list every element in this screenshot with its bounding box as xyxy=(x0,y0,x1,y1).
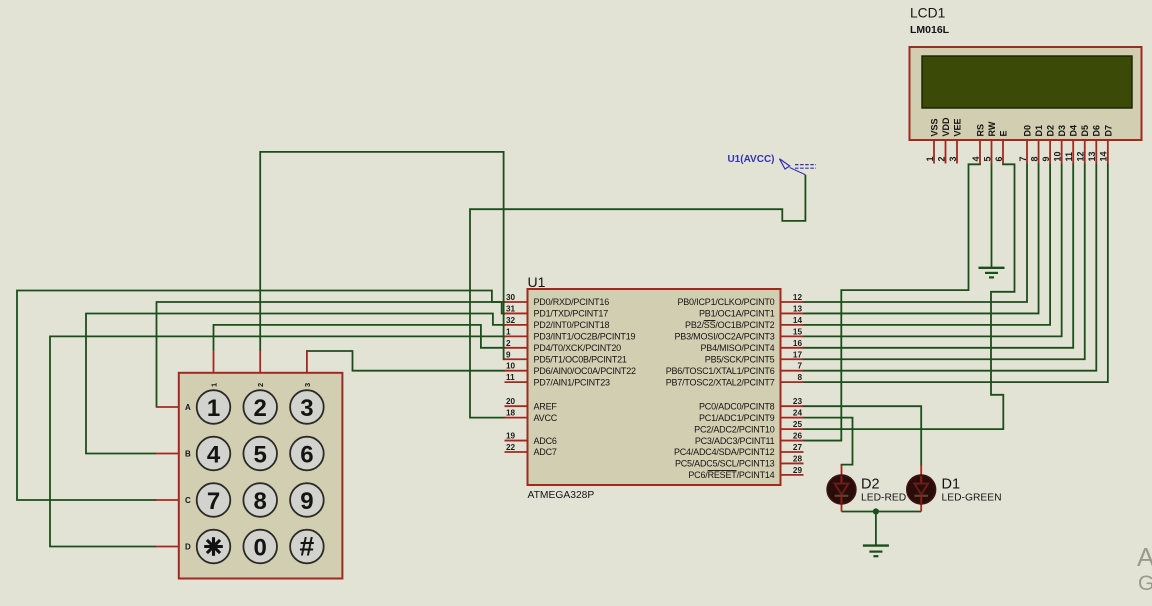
svg-text:ATMEGA328P: ATMEGA328P xyxy=(528,490,595,501)
svg-text:D5: D5 xyxy=(1080,125,1090,137)
svg-text:D4: D4 xyxy=(1069,125,1079,137)
svg-text:11: 11 xyxy=(506,373,515,382)
svg-text:D: D xyxy=(185,542,191,551)
svg-text:ADC7: ADC7 xyxy=(534,447,557,457)
svg-text:4: 4 xyxy=(207,441,221,468)
svg-text:VEE: VEE xyxy=(952,118,962,136)
U1 left pin stubs xyxy=(505,301,528,303)
svg-text:PB6/TOSC1/XTAL1/PCINT6: PB6/TOSC1/XTAL1/PCINT6 xyxy=(666,366,775,376)
svg-text:13: 13 xyxy=(793,304,803,313)
svg-text:1: 1 xyxy=(506,327,511,336)
svg-text:PD2/INT0/PCINT18: PD2/INT0/PCINT18 xyxy=(534,320,610,330)
wire LCD RW (pin 5) to ground xyxy=(991,164,993,268)
wire keypad row A to U1 pin 31 (PD1) xyxy=(157,302,506,407)
U1 right pin stubs xyxy=(781,301,804,303)
svg-text:PC2/ADC2/PCINT10: PC2/ADC2/PCINT10 xyxy=(694,424,775,434)
svg-text:11: 11 xyxy=(1064,152,1074,162)
svg-text:2: 2 xyxy=(936,156,946,161)
svg-text:15: 15 xyxy=(793,327,803,336)
svg-text:PB3/MOSI/OC2A/PCINT3: PB3/MOSI/OC2A/PCINT3 xyxy=(674,332,774,342)
ground symbol below LCD RW xyxy=(979,267,1005,269)
svg-text:PB2/SS/OC1B/PCINT2: PB2/SS/OC1B/PCINT2 xyxy=(685,320,775,330)
svg-text:5: 5 xyxy=(982,156,992,161)
svg-text:2: 2 xyxy=(256,383,265,387)
svg-text:9: 9 xyxy=(300,488,313,515)
svg-text:25: 25 xyxy=(793,420,803,429)
op-amp U1 ATMEGA328P body xyxy=(528,289,781,485)
LED D1 xyxy=(920,465,922,476)
keypad body xyxy=(179,373,343,579)
wire keypad col1 to U1 pin 2 (PD4) xyxy=(214,325,506,351)
svg-text:PC0/ADC0/PCINT8: PC0/ADC0/PCINT8 xyxy=(699,401,775,411)
svg-text:30: 30 xyxy=(506,293,516,302)
svg-text:7: 7 xyxy=(207,488,220,515)
svg-text:PD1/TXD/PCINT17: PD1/TXD/PCINT17 xyxy=(534,309,609,319)
svg-text:7: 7 xyxy=(1018,156,1028,161)
svg-text:LED-GREEN: LED-GREEN xyxy=(942,493,1002,504)
svg-text:AREF: AREF xyxy=(534,401,558,411)
svg-text:1: 1 xyxy=(207,395,220,422)
ground symbol below LEDs xyxy=(863,544,889,546)
LED D2 xyxy=(841,465,843,476)
svg-text:PB0/ICP1/CLKO/PCINT0: PB0/ICP1/CLKO/PCINT0 xyxy=(677,297,774,307)
svg-text:#: # xyxy=(300,531,315,561)
svg-text:10: 10 xyxy=(506,362,516,371)
svg-text:AVCC: AVCC xyxy=(534,413,558,423)
svg-text:PC3/ADC3/PCINT11: PC3/ADC3/PCINT11 xyxy=(695,436,775,446)
svg-text:18: 18 xyxy=(506,409,516,418)
svg-text:D6: D6 xyxy=(1092,125,1102,137)
keypad row pin stubs xyxy=(156,406,179,408)
svg-text:14: 14 xyxy=(793,316,803,325)
svg-text:D2: D2 xyxy=(1046,125,1056,137)
svg-text:PD0/RXD/PCINT16: PD0/RXD/PCINT16 xyxy=(534,297,610,307)
wire U1 pin 23 (PC0) to LED D1 anode xyxy=(803,406,922,466)
svg-text:PB4/MISO/PCINT4: PB4/MISO/PCINT4 xyxy=(700,343,774,353)
svg-text:RS: RS xyxy=(975,124,985,137)
svg-text:24: 24 xyxy=(793,409,803,418)
svg-text:U1: U1 xyxy=(528,274,546,290)
svg-text:VDD: VDD xyxy=(941,117,951,137)
svg-text:D1: D1 xyxy=(1034,125,1044,137)
svg-text:7: 7 xyxy=(797,362,802,371)
wire keypad col2 to U1 pin 9 (PD5) xyxy=(260,152,505,359)
svg-text:VSS: VSS xyxy=(929,118,939,136)
svg-text:G: G xyxy=(1138,572,1152,595)
svg-text:A: A xyxy=(1137,542,1152,572)
LCD1 pin stubs xyxy=(933,140,935,164)
keypad buttons xyxy=(197,390,231,424)
svg-text:LED-RED: LED-RED xyxy=(861,493,906,504)
svg-text:5: 5 xyxy=(254,441,267,468)
svg-text:PB5/SCK/PCINT5: PB5/SCK/PCINT5 xyxy=(705,354,775,364)
svg-text:12: 12 xyxy=(793,293,803,302)
svg-text:32: 32 xyxy=(506,316,516,325)
wire U1 pin 24 (PC1) to LED D2 anode xyxy=(803,418,853,466)
svg-text:D2: D2 xyxy=(861,477,880,493)
wire LCD E (pin 6) to U1 pin 25 (PC2) xyxy=(803,164,1015,430)
svg-text:2: 2 xyxy=(254,395,267,422)
svg-text:16: 16 xyxy=(793,339,803,348)
svg-text:D0: D0 xyxy=(1022,125,1032,137)
svg-text:9: 9 xyxy=(1041,156,1051,161)
svg-text:2: 2 xyxy=(506,339,511,348)
svg-text:PB7/TOSC2/XTAL2/PCINT7: PB7/TOSC2/XTAL2/PCINT7 xyxy=(666,377,775,387)
svg-text:PB1/OC1A/PCINT1: PB1/OC1A/PCINT1 xyxy=(699,309,775,319)
svg-text:1: 1 xyxy=(210,383,219,387)
svg-text:8: 8 xyxy=(1029,156,1039,161)
wire keypad col3 to U1 pin 10 (PD6) xyxy=(307,351,506,371)
svg-text:9: 9 xyxy=(506,350,511,359)
svg-text:12: 12 xyxy=(1076,151,1086,161)
svg-text:PD6/AIN0/OC0A/PCINT22: PD6/AIN0/OC0A/PCINT22 xyxy=(534,366,637,376)
svg-text:27: 27 xyxy=(793,443,803,452)
svg-text:29: 29 xyxy=(793,466,803,475)
svg-text:PD7/AIN1/PCINT23: PD7/AIN1/PCINT23 xyxy=(534,377,611,387)
LCD LCD1 body xyxy=(910,47,1142,140)
svg-text:22: 22 xyxy=(506,443,516,452)
wire LCD RS (pin 4) to U1 pin 26 (PC3) xyxy=(803,164,981,441)
svg-text:3: 3 xyxy=(948,156,958,161)
svg-text:14: 14 xyxy=(1099,151,1109,161)
svg-text:28: 28 xyxy=(793,454,803,463)
svg-text:6: 6 xyxy=(300,441,313,468)
svg-text:8: 8 xyxy=(797,373,802,382)
keypad column pin stubs xyxy=(213,350,215,373)
junction dot LED cathode net xyxy=(873,508,879,514)
svg-text:0: 0 xyxy=(254,534,267,561)
svg-text:10: 10 xyxy=(1052,151,1062,161)
svg-text:19: 19 xyxy=(506,432,516,441)
svg-text:PC6/RESET/PCINT14: PC6/RESET/PCINT14 xyxy=(688,470,774,480)
svg-text:1: 1 xyxy=(925,156,935,161)
svg-text:PD4/T0/XCK/PCINT20: PD4/T0/XCK/PCINT20 xyxy=(534,343,622,353)
svg-text:D3: D3 xyxy=(1057,125,1067,137)
wires U1 PB0-PB7 (pins 12-17,7,8) to LCD D0-D7 xyxy=(803,164,1028,303)
svg-text:RW: RW xyxy=(987,121,997,136)
svg-text:8: 8 xyxy=(254,488,267,515)
wire keypad row B to U1 pin 32 (PD2) xyxy=(86,314,506,454)
svg-text:PC5/ADC5/SCL/PCINT13: PC5/ADC5/SCL/PCINT13 xyxy=(675,459,775,469)
svg-text:U1(AVCC): U1(AVCC) xyxy=(727,154,774,165)
svg-text:C: C xyxy=(185,496,191,505)
wire LED cathodes common to ground xyxy=(842,511,922,513)
svg-text:D7: D7 xyxy=(1103,125,1113,137)
svg-text:LM016L: LM016L xyxy=(910,24,950,36)
svg-text:LCD1: LCD1 xyxy=(910,6,945,21)
svg-text:31: 31 xyxy=(506,304,516,313)
svg-text:6: 6 xyxy=(994,156,1004,161)
svg-text:A: A xyxy=(185,403,191,412)
svg-text:20: 20 xyxy=(506,397,516,406)
svg-text:3: 3 xyxy=(300,395,313,422)
svg-text:23: 23 xyxy=(793,397,803,406)
svg-text:13: 13 xyxy=(1087,151,1097,161)
svg-text:PD5/T1/OC0B/PCINT21: PD5/T1/OC0B/PCINT21 xyxy=(534,354,627,364)
svg-text:3: 3 xyxy=(303,383,312,387)
wire keypad row C to U1 pin 30 (PD0) xyxy=(17,291,506,501)
svg-text:PD3/INT1/OC2B/PCINT19: PD3/INT1/OC2B/PCINT19 xyxy=(534,332,636,342)
LCD1 screen xyxy=(922,56,1132,108)
svg-text:PC1/ADC1/PCINT9: PC1/ADC1/PCINT9 xyxy=(699,413,775,423)
svg-text:E: E xyxy=(998,130,1008,136)
svg-text:ADC6: ADC6 xyxy=(534,436,557,446)
wire keypad row D to U1 pin 1 (PD3) xyxy=(50,336,506,546)
svg-text:4: 4 xyxy=(971,156,981,161)
svg-text:17: 17 xyxy=(793,350,803,359)
svg-text:B: B xyxy=(185,449,191,458)
svg-text:D1: D1 xyxy=(942,477,961,493)
svg-text:26: 26 xyxy=(793,432,803,441)
wire AVCC power flag to U1 pin 18 (AVCC) xyxy=(470,175,805,418)
svg-text:PC4/ADC4/SDA/PCINT12: PC4/ADC4/SDA/PCINT12 xyxy=(674,447,775,457)
